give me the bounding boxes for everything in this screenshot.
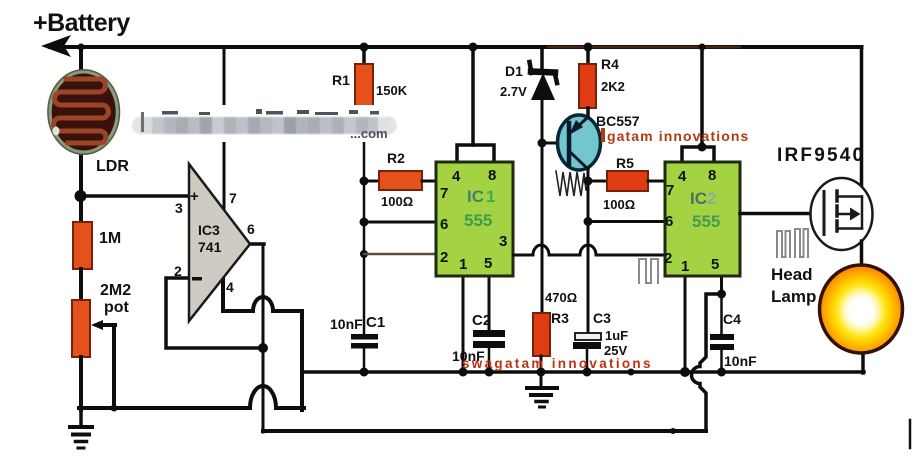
svg-text:555: 555	[464, 211, 492, 230]
svg-text:Head: Head	[771, 265, 813, 284]
resistor R5	[588, 180, 608, 183]
lamp head lamp	[820, 265, 903, 373]
watermark red top	[601, 128, 749, 144]
svg-text:2.7V: 2.7V	[500, 84, 527, 99]
wire node to op-amp pin3	[80, 194, 190, 198]
svg-text:R5: R5	[616, 155, 634, 171]
svg-text:555: 555	[692, 212, 720, 231]
wire LDR top stub	[79, 47, 83, 72]
wire right column top	[860, 47, 864, 187]
svg-text:pot: pot	[104, 299, 130, 316]
resistor 1M	[73, 222, 92, 269]
svg-text:741: 741	[198, 239, 222, 255]
svg-text:4: 4	[452, 168, 461, 185]
svg-text:150K: 150K	[376, 83, 408, 98]
svg-text:7: 7	[666, 182, 674, 199]
wire collector column	[587, 168, 590, 332]
svg-text:C1: C1	[366, 314, 385, 331]
svg-text:R1: R1	[332, 72, 350, 88]
svg-text:4: 4	[678, 168, 687, 185]
svg-text:5: 5	[711, 256, 719, 273]
ground (left)	[70, 408, 92, 448]
wire feedback vertical	[262, 244, 265, 432]
svg-text:2K2: 2K2	[601, 79, 625, 94]
zener diode D1 2.7V	[530, 47, 558, 315]
svg-text:IC3: IC3	[198, 222, 220, 238]
wire 1M to pot	[79, 269, 83, 302]
wire ground rail with hop	[79, 386, 304, 408]
capacitor C2	[473, 330, 505, 337]
svg-text:1: 1	[681, 258, 689, 275]
capacitor C3 1uF 25V	[575, 333, 601, 340]
wire top rail	[50, 45, 862, 49]
potentiometer 2M2 pot	[72, 300, 90, 357]
svg-text:IC1: IC1	[467, 187, 495, 206]
svg-text:2M2: 2M2	[100, 282, 131, 299]
svg-text:C2: C2	[472, 312, 491, 329]
svg-text:C4: C4	[723, 311, 741, 327]
transistor Q1 BC557	[558, 115, 601, 170]
wire pot to ground	[79, 357, 83, 410]
svg-text:5: 5	[484, 255, 492, 272]
svg-text:1: 1	[459, 256, 467, 273]
svg-text:2: 2	[664, 250, 672, 267]
capacitor C1	[351, 334, 378, 340]
svg-text:10nF: 10nF	[724, 353, 757, 369]
svg-text:+: +	[190, 188, 199, 205]
wire MOSFET to lamp	[860, 241, 864, 275]
wire IC2 pin3 to gate	[740, 212, 824, 216]
wire bottom cap rail	[302, 370, 864, 374]
capacitor C4	[720, 294, 723, 336]
svg-text:1uF: 1uF	[605, 328, 628, 343]
IC2 555	[664, 162, 740, 276]
wire pot wiper down	[112, 325, 116, 408]
svg-text:6: 6	[247, 221, 255, 237]
svg-text:4: 4	[226, 279, 234, 295]
wire op-amp pin2	[166, 278, 263, 348]
blur watermark band	[128, 105, 400, 142]
svg-text:...com: ...com	[350, 126, 388, 141]
svg-text:swagatam innovations: swagatam innovations	[462, 356, 653, 371]
svg-text:R4: R4	[601, 56, 619, 72]
wire IC2 pin6	[588, 220, 666, 223]
svg-text:2: 2	[440, 249, 448, 266]
battery arrow	[41, 35, 71, 57]
wire node to 1M	[79, 196, 83, 224]
pulse icon near lamp	[777, 231, 790, 257]
wire ground riser	[300, 311, 304, 410]
svg-text:R3: R3	[551, 310, 569, 326]
svg-text:6: 6	[665, 213, 673, 230]
svg-text:IC2: IC2	[690, 189, 716, 208]
svg-text:+Battery: +Battery	[33, 9, 130, 37]
svg-text:R2: R2	[387, 150, 405, 166]
wire IC1 pin1 column	[462, 276, 465, 372]
svg-text:2: 2	[174, 263, 182, 279]
svg-text:470Ω: 470Ω	[545, 290, 577, 305]
svg-text:LDR: LDR	[96, 158, 129, 175]
svg-text:8: 8	[708, 167, 716, 184]
svg-text:1M: 1M	[99, 230, 121, 247]
svg-text:gatam innovations: gatam innovations	[607, 128, 749, 144]
MOSFET IRF9540	[811, 178, 873, 250]
wire IC2 pin1 column	[684, 276, 687, 373]
wire R1 column to C1	[363, 108, 366, 336]
svg-text:3: 3	[175, 200, 183, 216]
svg-text:8: 8	[488, 167, 496, 184]
wire top rail tint	[548, 46, 740, 49]
wire IC1 pin2	[364, 253, 437, 256]
svg-text:IRF9540: IRF9540	[777, 145, 865, 166]
wire IC2 pin5 column	[720, 276, 723, 296]
IC1 555 supply staple	[457, 145, 494, 163]
svg-text:BC557: BC557	[596, 113, 640, 129]
IC1 555	[436, 162, 513, 276]
svg-text:7: 7	[440, 185, 448, 202]
svg-text:100Ω: 100Ω	[381, 194, 413, 209]
node A junction dot	[75, 190, 87, 202]
svg-text:Lamp: Lamp	[771, 287, 816, 306]
wire IC1 pin6	[364, 221, 437, 224]
resistor R2	[364, 180, 380, 183]
svg-text:6: 6	[440, 216, 448, 233]
squiggle mark	[556, 171, 586, 196]
wire op-amp pin6 output	[250, 242, 264, 246]
wire IC1 pin3 to IC2 pin2 with hops	[513, 245, 666, 255]
IC2 555 supply staple	[682, 147, 714, 163]
resistor R3 470	[533, 313, 550, 356]
op-amp U1 IC3 741	[189, 164, 250, 321]
wire IC1 pin5 column	[488, 276, 491, 332]
svg-text:D1: D1	[505, 63, 523, 79]
resistor R1	[360, 43, 369, 52]
svg-text:10nF: 10nF	[330, 316, 363, 332]
ground (mid)	[527, 372, 557, 407]
wire base of Q1	[542, 142, 560, 145]
wire op-amp pin7 from rail	[223, 47, 226, 213]
wire lower rail	[263, 429, 706, 433]
pulse icon near IC2	[639, 259, 658, 283]
wire op-amp pin4 with hop	[223, 279, 302, 311]
svg-text:C3: C3	[593, 310, 611, 326]
node feedback junction dot	[258, 343, 268, 353]
resistor R4 2K2	[584, 43, 593, 52]
svg-text:100Ω: 100Ω	[603, 197, 635, 212]
svg-text:7: 7	[229, 190, 237, 206]
border tick bottom right	[909, 420, 912, 448]
LDR	[48, 70, 120, 155]
wire pin5 branch with vertical hop	[692, 294, 722, 431]
svg-text:3: 3	[499, 233, 507, 250]
wire LDR to node	[79, 150, 83, 200]
